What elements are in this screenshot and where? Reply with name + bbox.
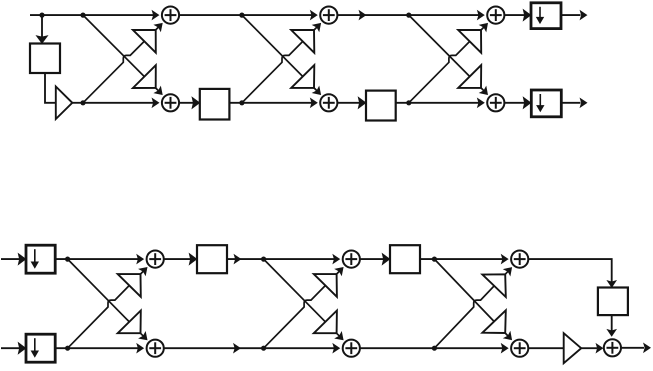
wire tap down to delay Z0 [41, 15, 43, 42]
wire diagonal down syn stage3 [434, 259, 508, 337]
wire diagonal up with hop syn stage1 [68, 271, 144, 349]
wire upsampler U1 to adder B1t [55, 258, 141, 260]
arrow into delay Y1 [190, 254, 197, 264]
wire diagonal up with hop syn stage3 [434, 271, 508, 349]
wire diagonal down syn stage1 [68, 259, 144, 337]
arrow into adder A1t [153, 11, 159, 19]
adder B1t [147, 251, 164, 268]
arrow into adder BF [597, 344, 603, 352]
arrow into top adder syn stage1 [140, 268, 147, 275]
arrow mid top rail [360, 11, 366, 19]
node tap stage3 bottom syn [432, 346, 437, 351]
wire output syn [621, 347, 644, 349]
arrow into adder A1b [153, 99, 159, 107]
node tap x(n) [39, 13, 44, 18]
delay Y3 [598, 288, 628, 316]
arrow into top adder syn stage2 [336, 268, 343, 275]
arrow into adder A2t [311, 11, 317, 19]
adder B3t [511, 251, 528, 268]
arrow into delay Y2 [383, 254, 390, 264]
wire amp GF to adder BF [581, 347, 597, 349]
node tap stage1 bottom [80, 100, 85, 105]
wire delay Z2 to adder A3b [396, 102, 482, 104]
adder A1t [162, 7, 179, 24]
arrow into downsampler D1 [524, 10, 531, 20]
gain amp upper stage1 [133, 30, 156, 53]
gain amp lower syn stage1 [118, 311, 141, 334]
wire diagonal up with hop syn stage2 [264, 271, 341, 349]
arrow into top adder stage1 [155, 24, 162, 31]
node tap stage2 top syn [261, 257, 266, 262]
wire input top [1, 258, 20, 260]
arrow into adder B2b [333, 344, 339, 352]
delay Y2 [390, 245, 420, 273]
arrow into bottom adder syn stage2 [336, 333, 343, 340]
arrow into bottom adder syn stage3 [504, 332, 511, 339]
wire diagonal down stage1 [83, 15, 159, 91]
gain amp lower stage1 [133, 65, 156, 88]
wire adder A1b to delay Z1 [179, 102, 200, 104]
delay Z1 [200, 89, 230, 120]
arrow into delay Z2 [359, 98, 366, 108]
wire upsampler U2 rail [55, 347, 141, 349]
arrow output bottom [581, 99, 587, 107]
adder A2b [320, 94, 337, 111]
arrow into downsampler D2 [524, 98, 531, 108]
arrow into top adder stage3 [480, 24, 487, 31]
downsampler D1 [531, 3, 561, 29]
wire top rail seg1 [30, 14, 157, 16]
adder BF [604, 339, 621, 356]
adder A3b [487, 94, 504, 111]
adder B1b [147, 340, 164, 357]
wire output bottom [561, 102, 580, 104]
gain amp lower syn stage3 [482, 310, 505, 333]
adder A1b [162, 94, 179, 111]
arrow into upsampler U1 [19, 254, 26, 264]
adder A3t [487, 7, 504, 24]
wire delay Z0 to amp G0 [45, 73, 56, 103]
arrow into delay Z0 [37, 36, 47, 43]
arrow into adder A3b [478, 99, 484, 107]
gain amp upper stage3 [458, 30, 481, 53]
wire bottom rail syn seg3 [360, 347, 506, 349]
arrow into adder A3t [478, 11, 484, 19]
adder B2b [343, 340, 360, 357]
wire output top [561, 14, 581, 16]
wire adder A3t to downsampler [505, 14, 532, 16]
wire top rail seg3 [338, 14, 482, 16]
gain amp upper stage2 [291, 30, 314, 53]
arrow into adder B1b [137, 344, 143, 352]
wire top rail seg2 [179, 14, 315, 16]
arrow after delay Y1 [235, 255, 241, 263]
wire delay Y3 to adder BF [611, 315, 613, 331]
arrow into adder B1t [137, 255, 143, 263]
wire delay Z1 to adder A2b [229, 102, 314, 104]
gain amp upper syn stage1 [118, 274, 141, 297]
wire adder A2b to delay Z2 [338, 102, 366, 104]
delay Z2 [366, 91, 396, 121]
wire adder B3t to delay Y3 [528, 259, 611, 282]
wire diagonal down syn stage2 [264, 259, 341, 337]
arrow mid bottom rail syn [234, 344, 240, 352]
gain amp lower stage3 [458, 65, 481, 88]
arrow into bottom adder stage2 [313, 87, 320, 94]
arrow output syn [644, 344, 650, 352]
node tap stage2 bottom syn [261, 346, 266, 351]
wire delay Y1 to adder B2t [227, 258, 337, 260]
arrow into top adder syn stage3 [504, 268, 511, 275]
arrow output top [581, 11, 587, 19]
wire adder B2t to delay Y2 [360, 258, 390, 260]
wire input bottom [1, 347, 20, 349]
node tap stage1 bottom syn [65, 346, 70, 351]
node tap stage1 top [80, 13, 85, 18]
gain amp upper syn stage3 [482, 274, 505, 297]
wire bottom rail seg1 [83, 102, 157, 104]
gain amp lower stage2 [291, 65, 314, 88]
arrow into top adder stage2 [313, 24, 320, 31]
wire diagonal up with hop stage3 [409, 27, 485, 103]
downsampler U2 [26, 334, 55, 362]
wire diagonal down stage3 [409, 15, 485, 91]
node tap stage2 top [239, 13, 244, 18]
arrow into bottom adder stage3 [480, 87, 487, 94]
arrow into upsampler U2 [19, 343, 26, 353]
wire bottom rail syn seg2 [164, 347, 337, 349]
arrow into delay Z1 [192, 98, 199, 108]
downsampler D2 [531, 90, 561, 117]
wire adder B3b to amp GF [528, 347, 563, 349]
arrow into adder A2b [311, 99, 317, 107]
arrow into bottom adder stage1 [155, 87, 162, 94]
downsampler U1 [26, 245, 55, 273]
gain amp G0 [56, 87, 73, 120]
delay Z0 [30, 44, 60, 74]
arrow into adder B3t [502, 255, 508, 263]
adder A2t [320, 7, 337, 24]
node tap stage3 top [406, 13, 411, 18]
arrow into delay Y3 [608, 281, 616, 287]
adder B2t [343, 251, 360, 268]
node tap stage2 bottom [239, 100, 244, 105]
adder B3b [511, 340, 528, 357]
node tap stage3 bottom [406, 100, 411, 105]
wire adder B1t to delay Y1 [164, 258, 197, 260]
wire diagonal down stage2 [242, 15, 318, 91]
arrow into adder BF top [608, 330, 616, 336]
gain amp GF [564, 333, 582, 363]
wire diagonal up with hop stage2 [242, 27, 318, 103]
wire delay Y2 to adder B3t [420, 258, 506, 260]
node tap stage3 top syn [432, 257, 437, 262]
gain amp lower syn stage2 [314, 311, 337, 334]
arrow into adder B2t [333, 255, 339, 263]
wire amp G0 out [72, 102, 83, 104]
delay Y1 [197, 245, 227, 273]
wire diagonal up with hop stage1 [83, 26, 159, 102]
arrow into adder B3b [502, 344, 508, 352]
arrow into bottom adder syn stage1 [140, 333, 147, 340]
wire adder A3b to downsampler D2 [505, 102, 532, 104]
gain amp upper syn stage2 [314, 274, 337, 297]
node tap stage1 top syn [65, 257, 70, 262]
